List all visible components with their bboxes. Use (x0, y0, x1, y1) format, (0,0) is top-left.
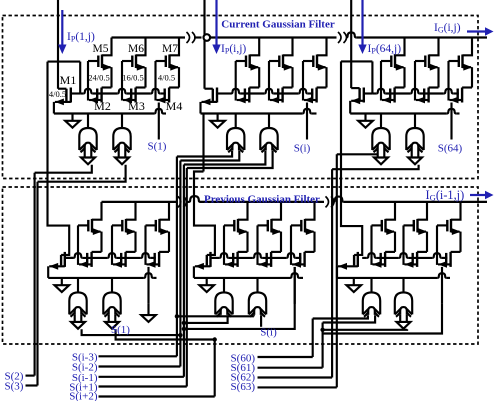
svg-text:S(i+2): S(i+2) (69, 391, 98, 401)
svg-text:S(1): S(1) (111, 324, 130, 336)
svg-text:S(63): S(63) (231, 381, 256, 393)
svg-text:S(i): S(i) (294, 143, 311, 155)
svg-text:M4: M4 (166, 99, 183, 113)
svg-text:M6: M6 (128, 43, 144, 55)
svg-text:Previous Gaussian Filter: Previous Gaussian Filter (204, 194, 320, 206)
svg-text:S(3): S(3) (5, 381, 24, 393)
svg-text:4/0.5: 4/0.5 (49, 89, 66, 99)
svg-text:IP(i,j): IP(i,j) (221, 43, 246, 56)
svg-text:M1: M1 (60, 73, 77, 87)
svg-text:M2: M2 (94, 99, 111, 113)
svg-text:S(i): S(i) (260, 327, 277, 339)
svg-text:M5: M5 (93, 43, 109, 55)
svg-text:S(64): S(64) (438, 143, 463, 155)
svg-text:16/0.5: 16/0.5 (122, 73, 144, 83)
svg-text:4/0.5: 4/0.5 (158, 73, 175, 83)
svg-text:M7: M7 (162, 43, 178, 55)
svg-text:S(1): S(1) (148, 141, 167, 153)
svg-text:M3: M3 (128, 99, 145, 113)
svg-text:24/0.5: 24/0.5 (88, 73, 110, 83)
svg-text:Current Gaussian Filter: Current Gaussian Filter (221, 19, 335, 31)
